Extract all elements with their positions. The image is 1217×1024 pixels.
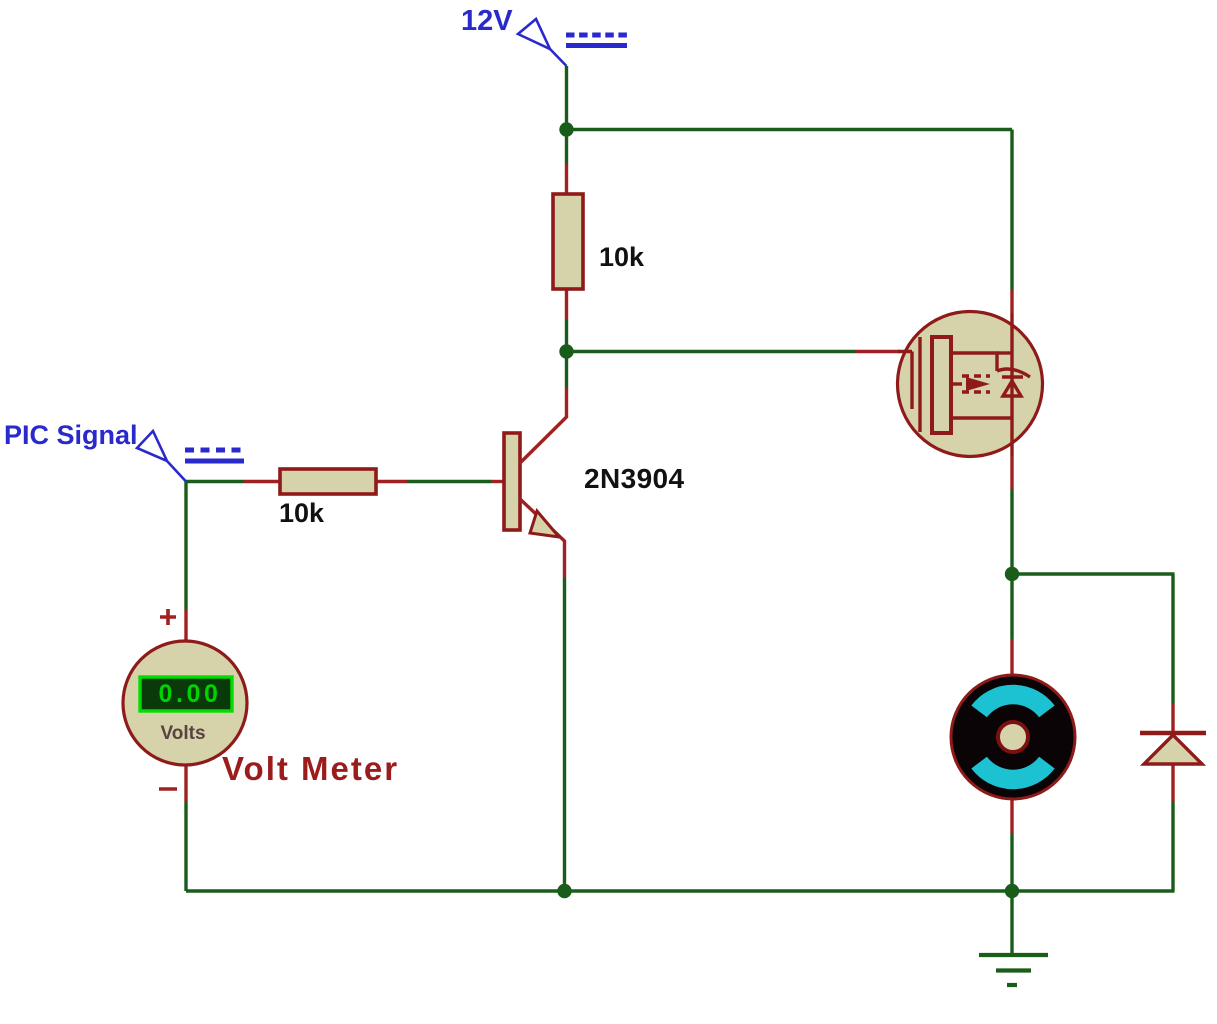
pin motor top (red) (1010, 639, 1013, 676)
pin MOSFET gate (red) (856, 350, 900, 353)
wire voltmeter to bottom rail (184, 801, 187, 891)
voltmeter LCD bezel (140, 677, 232, 711)
svg-text:10k: 10k (599, 242, 645, 272)
svg-text:10k: 10k (279, 498, 325, 528)
pin R1 top (red) (565, 164, 568, 196)
wire diode branch vertical (1171, 574, 1174, 703)
diode D1 triangle (1144, 735, 1202, 764)
resistor R1 10k (553, 194, 583, 289)
wire PIC terminal down to voltmeter (184, 482, 187, 610)
pin R2 left (red) (244, 480, 280, 483)
pin diode cathode (red) (1171, 703, 1174, 733)
node top rail junction (559, 122, 573, 136)
MOSFET gate plate (932, 337, 951, 433)
svg-text:Volt Meter: Volt Meter (222, 750, 399, 787)
node gate junction (559, 344, 573, 358)
transistor Q1 emitter stroke (520, 499, 565, 541)
wire diode to bottom rail (1171, 801, 1174, 891)
svg-text:Volts: Volts (160, 723, 205, 744)
MOSFET Q2 body circle (898, 312, 1043, 457)
terminal PIC Signal triangle (137, 431, 186, 482)
diode D1 cathode bar (1140, 731, 1206, 735)
DC symbol for 12V (566, 35, 628, 46)
pin diode anode (red) (1171, 764, 1174, 801)
MOSFET gate lead inside (898, 352, 912, 410)
MOSFET substrate arrowhead (966, 377, 990, 391)
node emitter/bottom junction (557, 884, 571, 898)
power terminal 12V triangle (518, 19, 567, 66)
transistor Q1 collector stroke (520, 417, 567, 463)
wire R2 to base (407, 480, 491, 483)
motor M1 hub (998, 722, 1028, 752)
pin R2 right (red) (376, 480, 407, 483)
wire motor node down (1010, 574, 1013, 639)
wire 12V terminal to top node (565, 66, 568, 129)
wire ground stem (1010, 891, 1013, 953)
wire right vertical to MOSFET drain (1010, 130, 1013, 290)
motor M1 body (951, 675, 1075, 799)
MOSFET channel dashes (951, 382, 962, 385)
wire top node to R1 (565, 130, 568, 165)
wire mid node down to collector (565, 352, 568, 389)
pin R1 bottom (red) (565, 287, 568, 320)
MOSFET body arc (997, 369, 1030, 377)
transistor Q1 2N3904 base bar (504, 433, 520, 530)
DC symbol for PIC Signal (185, 450, 244, 461)
MOSFET channel line through circle (1010, 313, 1013, 456)
node motor/diode junction (1005, 567, 1019, 581)
MOSFET substrate arrow dashed box (962, 376, 990, 392)
wire motor node to diode branch (1012, 572, 1175, 575)
svg-text:PIC Signal: PIC Signal (4, 420, 138, 450)
transistor Q1 emitter arrowhead (530, 511, 559, 537)
svg-text:0.00: 0.00 (158, 680, 221, 708)
pin MOSFET source (red) (1010, 456, 1013, 489)
svg-text:2N3904: 2N3904 (584, 463, 685, 494)
pin motor bottom (red) (1010, 798, 1013, 833)
wire emitter down to bottom node (563, 578, 566, 891)
wire PIC terminal horizontal (186, 480, 244, 483)
MOSFET body diode triangle (1003, 381, 1021, 396)
wire mid node to MOSFET gate (567, 350, 857, 353)
pin Q1 base (red) (491, 480, 505, 483)
MOSFET drain connection (951, 353, 997, 371)
voltmeter minus mark (159, 787, 177, 791)
pin voltmeter minus (red) (184, 764, 187, 801)
motor M1 bottom rotor arc (979, 763, 1047, 780)
motor M1 top rotor arc (979, 695, 1047, 712)
pin voltmeter plus (red) (184, 609, 187, 642)
pin MOSFET drain (red) (1010, 289, 1013, 313)
pin Q1 emitter vertical (red) (563, 540, 566, 578)
MOSFET body diode bar (1002, 375, 1023, 378)
MOSFET Q2 internals (898, 337, 1030, 433)
voltmeter plus mark (160, 609, 176, 625)
MOSFET top bar to channel (997, 351, 1012, 354)
ground symbol (979, 955, 1048, 985)
wire top horizontal rail (567, 128, 1013, 131)
MOSFET source connection (951, 416, 1012, 419)
voltmeter body (123, 641, 247, 765)
pin Q1 collector (red) (565, 388, 568, 418)
MOSFET gate electrode line (918, 337, 921, 432)
wire motor bottom to bottom rail (1010, 833, 1013, 891)
resistor R2 10k (280, 469, 376, 494)
node ground junction (1005, 884, 1019, 898)
wire R1 bottom to mid node (565, 320, 568, 352)
svg-text:12V: 12V (461, 5, 513, 37)
wire MOSFET source to motor node (1010, 489, 1013, 574)
wire bottom rail (186, 889, 1175, 892)
